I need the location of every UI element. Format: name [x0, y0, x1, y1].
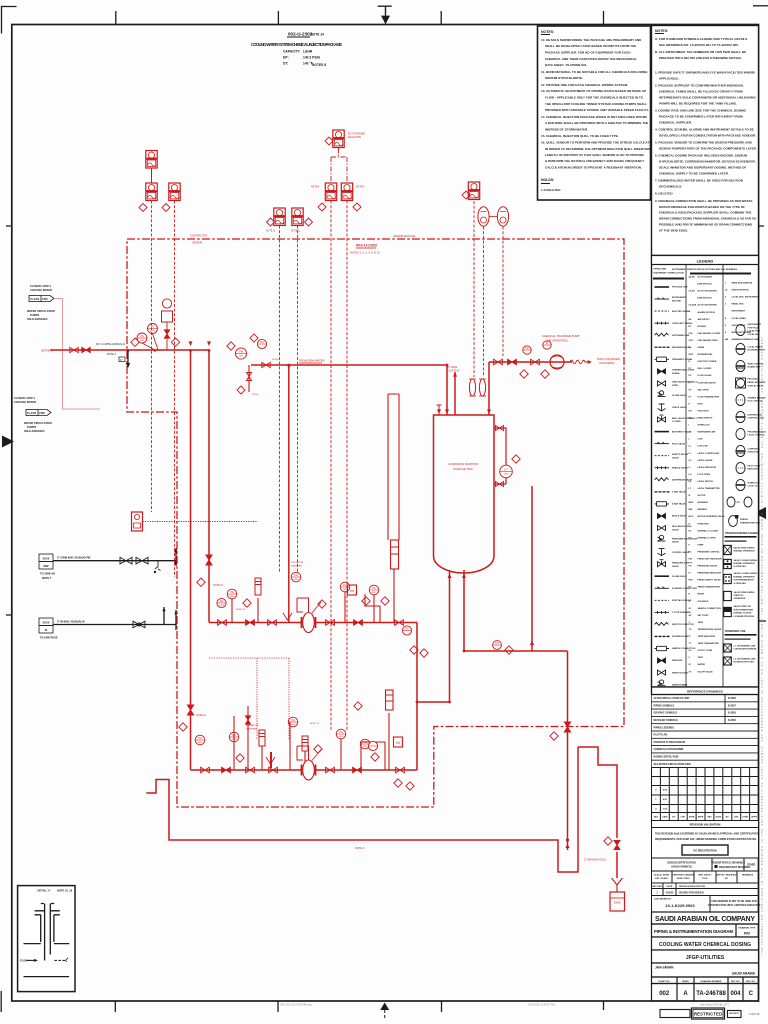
svg-text:SOLENOID: SOLENOID [698, 601, 709, 603]
tank vent line [454, 372, 456, 415]
diamond demi 3 [250, 334, 258, 342]
selector connector [331, 148, 347, 183]
svg-text:PG: PG [230, 591, 234, 594]
diagram type row [652, 924, 759, 937]
svg-text:M: M [396, 740, 399, 745]
svg-text:HIGH HIGH: HIGH HIGH [698, 411, 709, 413]
svg-text:PG: PG [689, 566, 692, 568]
svg-text:INTERMEDIATE BULK CONTAINERS O: INTERMEDIATE BULK CONTAINERS OR ADDITION… [659, 95, 757, 99]
svg-text:002-U-2302: 002-U-2302 [288, 32, 313, 37]
svg-text:PC: PC [689, 552, 692, 554]
svg-text:1408: 1408 [230, 596, 236, 598]
svg-text:OPERATIONAL GUIDE: OPERATIONAL GUIDE [672, 369, 695, 372]
svg-text:FG: FG [689, 375, 692, 377]
svg-text:NOTATION WITH TAG: NOTATION WITH TAG [734, 661, 755, 664]
svg-text:DATA SHEET. TS-070892-001.: DATA SHEET. TS-070892-001. [545, 63, 587, 67]
svg-text:L1- ON DRAWING LINE: L1- ON DRAWING LINE [734, 645, 757, 648]
svg-text:IS GOVERNED BY SAUDI ARAMCO AP: IS GOVERNED BY SAUDI ARAMCO APPROVAL AND… [677, 833, 759, 836]
svg-text:ISSUED FOR DESIGN: ISSUED FOR DESIGN [679, 892, 704, 895]
svg-text:PIPING LEGENDS: PIPING LEGENDS [654, 726, 675, 729]
svg-text:NORMALLY OPEN: NORMALLY OPEN [698, 536, 717, 539]
svg-text:1406: 1406 [294, 579, 300, 581]
main line valve 1 [70, 347, 78, 352]
instrument box pair 2 [292, 208, 303, 226]
svg-text:PG: PG [343, 584, 347, 587]
svg-text:HYPOCHLORITE, CORROSION INHIBI: HYPOCHLORITE, CORROSION INHIBITOR, OXYGE… [659, 160, 756, 164]
svg-text:CAR SEALED OPEN: CAR SEALED OPEN [698, 339, 718, 342]
row2 inlet valve [187, 705, 193, 715]
revision validation bar [652, 821, 759, 828]
svg-text:NOTE 3: NOTE 3 [107, 353, 117, 356]
svg-text:PG: PG [140, 335, 144, 338]
svg-text:TEMPERATURE GAUGE: TEMPERATURE GAUGE [698, 628, 722, 631]
svg-text:CORROSION INHIBITOR: CORROSION INHIBITOR [448, 462, 478, 466]
svg-text:VALVE OPEN DURING: VALVE OPEN DURING [734, 591, 755, 594]
diamond duty right [353, 203, 361, 211]
svg-text:& OPEN FAIL: & OPEN FAIL [734, 582, 747, 585]
svg-text:DATE: DATE [662, 815, 668, 818]
svg-text:DP:: DP: [283, 56, 289, 60]
PG row1 d [369, 585, 379, 595]
pink connector line [55, 299, 100, 410]
svg-text:SODIUM HYPOCHLORITE.: SODIUM HYPOCHLORITE. [545, 76, 583, 80]
svg-text:1401: 1401 [504, 473, 510, 475]
svg-text:REQUIRED: REQUIRED [719, 866, 732, 869]
svg-text:IN ORDER TO DETERMINE THE OPTI: IN ORDER TO DETERMINE THE OPTIMUM INJECT… [545, 147, 650, 151]
svg-text:CLOSED LOOP-1: CLOSED LOOP-1 [30, 284, 52, 288]
svg-text:C: C [749, 991, 754, 997]
svg-text:INTERLOCK: INTERLOCK [748, 482, 761, 484]
duty standby selector box [333, 130, 344, 148]
svg-text:B-2609: B-2609 [728, 697, 737, 700]
transfer pump line [489, 362, 572, 415]
drawing title rows [652, 937, 759, 950]
svg-text:PG: PG [405, 628, 409, 631]
security box [728, 1011, 742, 1018]
svg-text:UC: UC [689, 650, 693, 652]
svg-text:HOLDS:: HOLDS: [541, 178, 554, 182]
location row [652, 963, 759, 977]
svg-text:SELF REGULATING: SELF REGULATING [672, 525, 692, 528]
svg-text:DISTRIBUTED: DISTRIBUTED [748, 414, 762, 416]
svg-text:PROCESS LINE: PROCESS LINE [672, 287, 688, 289]
svg-text:SHT. NO.: SHT. NO. [731, 981, 741, 983]
riser x209 isolation valve [206, 555, 212, 565]
PG row1 a [227, 589, 237, 599]
instrument box AIT top [146, 151, 157, 169]
svg-text:P.E REGISTRATION: P.E REGISTRATION [693, 850, 716, 853]
top center marker [378, 6, 392, 15]
svg-text:SET POINT: SET POINT [698, 615, 710, 617]
svg-text:PIPING AND: PIPING AND [654, 268, 667, 271]
svg-text:CONTINUATION BREAK: CONTINUATION BREAK [734, 648, 757, 651]
svg-text:PILOT LIGHT: PILOT LIGHT [748, 465, 762, 467]
svg-text:CLOSED LOOP-1: CLOSED LOOP-1 [14, 396, 36, 400]
svg-text:DUTY/STANDBY: DUTY/STANDBY [348, 133, 366, 136]
svg-text:SELECTION: SELECTION [348, 137, 361, 139]
PG row2 d [360, 739, 370, 749]
svg-text:DETAILED SYMBOLS: DETAILED SYMBOLS [654, 719, 679, 722]
certification text block [652, 828, 759, 859]
pipe 2 spec box [39, 618, 53, 633]
detail A dashed line [55, 959, 66, 961]
svg-text:PRESSURE GAUGE: PRESSURE GAUGE [698, 565, 718, 568]
row1 header valve 3 [268, 620, 277, 626]
svg-text:MAXIMUM: MAXIMUM [698, 501, 708, 504]
svg-text:TEMP INDICATOR: TEMP INDICATOR [698, 635, 716, 638]
svg-text:JOB ORDER NO.: JOB ORDER NO. [654, 899, 672, 901]
corner crop mark top-right [753, 5, 768, 7]
svg-text:OPERATION MODES LEGEND: OPERATION MODES LEGEND [725, 532, 758, 535]
svg-text:AIR LINE: AIR LINE [672, 300, 682, 303]
legend instrument bubble symbols [727, 324, 766, 526]
svg-text:OPERATION: OPERATION [734, 597, 746, 600]
diamond below AIT [139, 204, 147, 212]
row1 header valve 5 [354, 620, 363, 626]
svg-text:AFTER INSTALLATION OF UNIT: AFTER INSTALLATION OF UNIT [654, 697, 691, 700]
revision grid [652, 768, 759, 821]
svg-text:MINIMUM: MINIMUM [698, 509, 708, 511]
svg-text:REVISION DESCRIPTION: REVISION DESCRIPTION [679, 886, 705, 888]
svg-text:DAMPNER: DAMPNER [291, 564, 302, 567]
dotted link row1-row2 [209, 658, 289, 740]
corrosion inhibitor storage tank [434, 415, 495, 573]
svg-text:REQUIREMENTS, PER SAEP-334, UN: REQUIREMENTS, PER SAEP-334, UNDER DRAWIN… [655, 838, 757, 841]
dosing pump suction header 1 [209, 622, 417, 624]
svg-text:PG: PG [525, 347, 529, 350]
transfer PI [543, 341, 551, 349]
svg-text:A. FOR STANDARD SYMBOLS,LEGEND: A. FOR STANDARD SYMBOLS,LEGEND AND TYPIC… [655, 37, 747, 41]
svg-text:11. BUND MATERIAL TO BE SUITAB: 11. BUND MATERIAL TO BE SUITABLE FOR ALL… [541, 70, 648, 74]
svg-text:CWR: CWR [39, 412, 45, 415]
svg-text:SAMPLE CONNECTION: SAMPLE CONNECTION [698, 607, 722, 610]
svg-text:XXXX: XXXX [43, 557, 50, 561]
diamond row1 f [420, 649, 428, 657]
svg-text:SHALL BE DEVELOPED LATER BASED: SHALL BE DEVELOPED LATER BASED ON INPUTS… [545, 44, 636, 48]
transfer line valve 3 [531, 359, 540, 365]
svg-text:DIFFERENTIAL: DIFFERENTIAL [698, 353, 714, 356]
reference drawings table [652, 695, 759, 768]
off-page flag top [29, 296, 54, 302]
pulsation dampener [259, 730, 265, 746]
svg-text:PROVIDED WITH VARIABLE STROKE: PROVIDED WITH VARIABLE STROKE AND VARIAB… [545, 108, 649, 112]
svg-text:UTILITY CONN: UTILITY CONN [698, 650, 713, 652]
svg-text:PNEUM.: PNEUM. [740, 519, 749, 521]
svg-text:NOTES 1, 2, 3, 4, 6, 9, 10: NOTES 1, 2, 3, 4, 6, 9, 10 [350, 251, 380, 255]
notes box left [538, 26, 651, 200]
instrument box left duty [325, 183, 336, 201]
svg-text:VALVE: VALVE [672, 456, 679, 459]
calibration column row2 [386, 690, 394, 710]
svg-text:L&HR: L&HR [303, 50, 313, 54]
svg-text:NOTE 4: NOTE 4 [311, 187, 320, 189]
svg-text:STHB: STHB [742, 816, 748, 818]
svg-text:LICENSED PROCESS: LICENSED PROCESS [734, 616, 755, 618]
job order row [652, 896, 759, 913]
diamond drain 2 [604, 837, 612, 845]
svg-text:A BUILDING SHALL BE PROVIDED W: A BUILDING SHALL BE PROVIDED WITH A SHEL… [545, 121, 648, 125]
svg-text:MOV: MOV [689, 516, 694, 518]
svg-text:4/13/22: 4/13/22 [666, 892, 675, 895]
svg-text:NORMAL OPERATION: NORMAL OPERATION [734, 550, 756, 553]
PG row2 c [336, 729, 346, 739]
svg-text:B. ALL INSTRUMENT TAG NUMBERS: B. ALL INSTRUMENT TAG NUMBERS ON THIS P&… [655, 50, 746, 54]
reference drawings header [652, 687, 759, 695]
svg-text:INSTRUMENT: INSTRUMENT [672, 297, 686, 299]
svg-text:LG: LG [689, 460, 692, 462]
svg-text:(SAUDI ARAMCO): (SAUDI ARAMCO) [671, 866, 692, 869]
legend operation modes section [724, 532, 758, 618]
svg-text:COOLING WATER: COOLING WATER [14, 400, 36, 404]
svg-text:FOR FIELD: FOR FIELD [748, 327, 759, 329]
svg-text:DRAIN CONNECTIONS FROM INDIVID: DRAIN CONNECTIONS FROM INDIVIDUAL CHEMIC… [659, 217, 756, 221]
riser x417 [416, 623, 418, 771]
svg-text:PRESS DIFF INDICATOR: PRESS DIFF INDICATOR [698, 558, 723, 561]
instrument signal lines (dashed) [152, 201, 504, 731]
svg-text:ACT'D SHUTDOWN: ACT'D SHUTDOWN [698, 304, 718, 307]
drain riser x567.5 [567, 651, 569, 850]
svg-text:STHB: STHB [689, 816, 695, 818]
wire riser x190.5 [190, 350, 192, 770]
diamond main 2 [171, 338, 179, 346]
svg-text:DRAWING NUMBER: DRAWING NUMBER [701, 980, 722, 983]
svg-text:(SEE NOTE B): (SEE NOTE B) [698, 284, 712, 286]
svg-text:(SEE NOTE B): (SEE NOTE B) [698, 298, 712, 300]
svg-text:PID: PID [744, 932, 750, 936]
svg-text:TA-2400: TA-2400 [30, 298, 40, 301]
level transmitter LIT [500, 465, 513, 478]
svg-text:EQUIPMENT SYMBOLS-P&ID: EQUIPMENT SYMBOLS-P&ID [654, 273, 685, 275]
svg-text:DEVELOPED LATER IN CONSULTATIO: DEVELOPED LATER IN CONSULTATION WITH PAC… [659, 133, 756, 137]
black pipe 2 [53, 607, 176, 630]
svg-text:LOCATION: LOCATION [447, 369, 459, 372]
svg-text:ELECTRIC POWER: ELECTRIC POWER [698, 361, 717, 363]
svg-text:LOGIC 1/1: LOGIC 1/1 [748, 486, 759, 488]
svg-text:1415: 1415 [232, 739, 238, 741]
PG demi [257, 339, 266, 348]
svg-text:LEVEL TRANSMITTER: LEVEL TRANSMITTER [698, 487, 721, 490]
svg-text:DWS: DWS [614, 901, 621, 905]
svg-text:NORMALLY CLOSED: NORMALLY CLOSED [698, 529, 719, 532]
svg-text:NOTE 14: NOTE 14 [311, 33, 325, 37]
svg-text:NEEDLE VALVE: NEEDLE VALVE [672, 467, 688, 470]
svg-text:SCALE INHIBITOR AND DISPERSANT: SCALE INHIBITOR AND DISPERSANT DOSING. M… [659, 166, 746, 170]
svg-text:SOFTWARE LINK: SOFTWARE LINK [672, 334, 690, 337]
svg-text:B-2627: B-2627 [728, 704, 737, 707]
demi line valve [262, 362, 270, 367]
svg-text:C/LSDA: C/LSDA [689, 304, 697, 307]
svg-text:CHEMICAL SUPPLIER.: CHEMICAL SUPPLIER. [659, 120, 692, 124]
row2 header valve 3 [246, 767, 255, 773]
svg-text:CHK: CHK [734, 816, 739, 818]
row2 header valve 1 [201, 767, 210, 773]
svg-text:PULSATION: PULSATION [291, 561, 304, 564]
svg-text:PG: PG [339, 731, 343, 734]
LIT diamond [512, 455, 520, 463]
svg-text:START UP: START UP [734, 594, 745, 597]
tank nozzle valve bottom [496, 481, 504, 486]
match arrow right border [754, 507, 766, 519]
diamond row2 f [406, 782, 414, 790]
PG main [137, 333, 147, 343]
svg-text:Saad Marza GE-6-BL-2577: Saad Marza GE-6-BL-2577 [700, 1004, 730, 1007]
svg-text:FAIL CLOSED: FAIL CLOSED [698, 367, 712, 370]
svg-text:PACKAGE TO BE CONFIRMED LATER: PACKAGE TO BE CONFIRMED LATER WITH INPUT… [659, 114, 743, 118]
svg-text:GATE VALVE NORMALLY: GATE VALVE NORMALLY [672, 381, 698, 384]
svg-text:PG: PG [372, 587, 376, 590]
svg-text:SAUDI ARABIAN OIL COMPANY: SAUDI ARABIAN OIL COMPANY [655, 916, 755, 923]
ticks bottom border [115, 1002, 603, 1013]
svg-text:THE OPEN-LOOP COOLING TOWER SY: THE OPEN-LOOP COOLING TOWER SYSTEM. DOSI… [545, 102, 647, 106]
svg-text:CAPACITY:: CAPACITY: [283, 50, 300, 54]
svg-text:THE INFORMATION CONTAINED IN T: THE INFORMATION CONTAINED IN THIS DRAWIN… [761, 335, 764, 955]
svg-text:PACKAGE SUPPLIER. FOR NO OF EQ: PACKAGE SUPPLIER. FOR NO OF EQUIPMENT FO… [545, 51, 630, 55]
svg-text:CHECK VALVE: CHECK VALVE [672, 406, 687, 409]
svg-text:LOW: LOW [698, 439, 703, 441]
svg-text:002-U-2302: 002-U-2302 [356, 243, 378, 248]
svg-text:NOTE 9: NOTE 9 [355, 846, 365, 850]
svg-text:CONSTRUCTION UNTIL CERTIFIED A: CONSTRUCTION UNTIL CERTIFIED AND DATED [708, 904, 761, 907]
PG row2 a [229, 732, 239, 742]
svg-text:PI: PI [546, 342, 549, 345]
svg-text:COOLING WATER: COOLING WATER [30, 288, 52, 292]
svg-text:APPLICABLE.: APPLICABLE. [659, 76, 679, 80]
svg-text:FIELD AUX: FIELD AUX [748, 378, 760, 381]
LIT branch riser x532 [531, 486, 533, 651]
svg-text:002-E-2306A/B/C: 002-E-2306A/B/C [27, 317, 48, 321]
svg-text:NORMAL FLOW IN: NORMAL FLOW IN [734, 612, 752, 615]
svg-text:PG: PG [260, 341, 264, 344]
svg-text:SAMPLE CONNECTION: SAMPLE CONNECTION [672, 647, 696, 650]
PI main [148, 324, 158, 334]
diamond below AE [162, 204, 170, 212]
main cooling water injection pipe [50, 350, 617, 878]
diamond row1 c [362, 597, 370, 605]
svg-text:1": 1" [120, 358, 123, 362]
svg-text:CHEMICAL TANKS SHALL BE FILLED: CHEMICAL TANKS SHALL BE FILLED BY GRAVIT… [659, 89, 743, 93]
svg-text:PI: PI [151, 326, 154, 329]
ticks left border [6, 226, 12, 615]
air operated transfer pump [550, 355, 564, 369]
svg-text:LOCAL PANEL: LOCAL PANEL [732, 317, 747, 320]
svg-text:FOR PRESERVATION: FOR PRESERVATION [734, 579, 755, 582]
PG mid [493, 641, 502, 650]
svg-text:1431: 1431 [140, 340, 146, 342]
svg-text:NORMAL OPERATION: NORMAL OPERATION [734, 562, 756, 565]
svg-text:OR: OR [737, 502, 741, 504]
svg-text:APPR: APPR [698, 815, 704, 818]
svg-text:LIT: LIT [504, 469, 508, 472]
closed loop label bottom [14, 396, 52, 433]
diamond riser x209 [197, 578, 205, 586]
diamond row1 e [410, 646, 418, 654]
svg-text:SAFETY RELIEF: SAFETY RELIEF [672, 453, 689, 456]
svg-text:SC: SC [689, 608, 692, 610]
svg-text:PUMP: PUMP [698, 544, 705, 546]
black pipe 1 [53, 548, 176, 566]
flexible hose [566, 360, 589, 364]
svg-text:PROCESS FLOW DIAGRAM: PROCESS FLOW DIAGRAM [654, 741, 685, 744]
svg-text:5. PACKAGE VENDOR TO CONFIRM T: 5. PACKAGE VENDOR TO CONFIRM THE DESIGN … [655, 141, 753, 145]
svg-text:OTHER: OTHER [747, 864, 756, 867]
svg-text:PRESSURE INDICATOR: PRESSURE INDICATOR [698, 572, 722, 575]
svg-text:7. DEMINERALIZED WATER SHALL B: 7. DEMINERALIZED WATER SHALL BE USED FOR… [655, 179, 743, 183]
svg-text:LBV: LBV [239, 355, 244, 357]
svg-text:MIN: MIN [689, 509, 693, 511]
svg-text:10-1-K229-0003: 10-1-K229-0003 [665, 903, 695, 908]
svg-text:REV: REV [654, 816, 659, 818]
svg-text:FUNCTION: FUNCTION [748, 452, 759, 454]
svg-text:SPRAY NOZZLE: SPRAY NOZZLE [672, 671, 688, 674]
svg-text:& OPEN FAIL: & OPEN FAIL [734, 565, 747, 568]
strainer row1 [283, 613, 292, 620]
svg-text:TA-246788: TA-246788 [696, 991, 726, 997]
svg-text:GLOBE VALVE: GLOBE VALVE [672, 394, 687, 397]
svg-text:PLOT PLAN: PLOT PLAN [654, 734, 668, 737]
svg-text:COMPUTER: COMPUTER [748, 448, 760, 450]
instrument box pair 1 [274, 208, 285, 226]
closed loop label top [27, 284, 55, 321]
drain collection line [146, 747, 578, 872]
ticks right border [759, 226, 767, 621]
svg-text:DRAWING TYPE: DRAWING TYPE [739, 927, 756, 930]
svg-text:PG: PG [291, 719, 295, 722]
svg-text:& PERFORM THE NATURAL FREQUENC: & PERFORM THE NATURAL FREQUENCY AND SHAK… [545, 159, 644, 163]
pipe 1 valves [120, 557, 161, 570]
row2 header valve 2 [222, 767, 231, 773]
interlock box [132, 512, 143, 531]
svg-text:VENDOR: VENDOR [192, 242, 203, 245]
svg-text:PG: PG [363, 741, 367, 744]
svg-text:PANEL MTD.: PANEL MTD. [732, 303, 745, 306]
svg-text:LEVEL INDICATOR: LEVEL INDICATOR [698, 466, 717, 469]
main line valve 2 [82, 347, 90, 352]
svg-text:PRESSURE REGULATOR: PRESSURE REGULATOR [672, 537, 697, 540]
svg-text:NON-INTERMITTENT: NON-INTERMITTENT [734, 609, 755, 611]
svg-text:TG-2009-AB: TG-2009-AB [40, 572, 55, 576]
svg-text:COOLING WATER CHEMICAL DOSING: COOLING WATER CHEMICAL DOSING [659, 942, 751, 948]
svg-text:TRANSMITTER INST.: TRANSMITTER INST. [740, 521, 761, 524]
svg-text:UNLOADING: UNLOADING [599, 361, 614, 365]
svg-text:SIGNAL: SIGNAL [672, 372, 681, 375]
svg-text:SEE DRAWINGS NO. TA-200700-001: SEE DRAWINGS NO. TA-200700-001 TO TA-200… [659, 43, 739, 47]
svg-text:REFERENCE DRAWINGS: REFERENCE DRAWINGS [687, 690, 723, 694]
diamond row2 inlet [179, 723, 187, 731]
tank nozzle valve top [496, 425, 504, 430]
svg-text:1419: 1419 [339, 736, 345, 738]
svg-text:NOTE 11: NOTE 11 [266, 231, 276, 233]
svg-text:3. DOSING RATE AND LINE SIZE F: 3. DOSING RATE AND LINE SIZE FOR THE CHE… [655, 108, 747, 112]
svg-text:CSO: CSO [689, 340, 694, 342]
PIT square [162, 311, 173, 322]
PG row2 b [288, 717, 298, 727]
svg-text:NOTE 10: NOTE 10 [196, 714, 207, 717]
valve on x248 riser [245, 716, 250, 724]
svg-text:SEA WATER CIRCULATION P&ID: SEA WATER CIRCULATION P&ID [654, 763, 692, 766]
svg-text:TOOL: TOOL [702, 878, 709, 880]
row1 header valve 2 [246, 620, 255, 626]
svg-text:NORMAL OPERATION: NORMAL OPERATION [734, 575, 756, 578]
svg-text:NB: NB [725, 339, 729, 341]
calibration column feed lines [388, 394, 399, 540]
drain staircase [578, 747, 617, 838]
dosing pump 2 [297, 746, 321, 780]
pulsation dampener [255, 578, 261, 595]
svg-text:NOTE 13: NOTE 13 [236, 609, 246, 611]
svg-text:ELECTRIC SIGNAL: ELECTRIC SIGNAL [672, 310, 692, 313]
legend middle column abbreviation list [689, 276, 725, 674]
svg-text:A: A [683, 991, 688, 997]
